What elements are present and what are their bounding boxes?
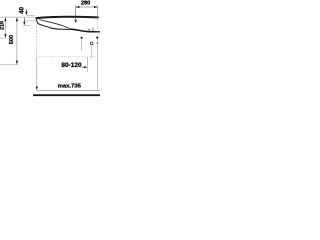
tick on wall pipe [96, 42, 98, 44]
svg-text:500: 500 [9, 35, 15, 44]
extension line / tap centre mark at x=75.7 [74, 5, 77, 23]
dimension 500 (rim to drain leader) [0, 17, 18, 65]
supply pipe line left [81, 39, 83, 51]
washbasin inner bowl line [39, 20, 69, 29]
wall extension line at x=97.6 (top) [97, 5, 99, 18]
wall line below basin [97, 19, 99, 37]
front edge lower dimension arrow [23, 18, 37, 26]
washbasin outer underside curve [37, 19, 100, 32]
floor reference thin line [37, 89, 100, 91]
svg-text:40: 40 [19, 6, 25, 13]
floor thick line [33, 94, 100, 96]
dashed projection line of basin front edge [36, 21, 38, 57]
dimension max.735 vertical line [36, 57, 82, 90]
svg-text:280: 280 [81, 1, 90, 7]
supply connection dot right (wall) [96, 37, 98, 39]
background [0, 0, 100, 100]
drain pipe line [91, 45, 93, 58]
dimension 40 (front rim thickness) [19, 6, 35, 15]
svg-text:max.735: max.735 [58, 84, 82, 90]
wall pipe line [96, 39, 98, 90]
extension line: basin rim level, to left margin [0, 16, 35, 18]
washbasin rim (side view top bar) [36, 17, 98, 18]
supply connection dot left [81, 37, 83, 39]
dimension 280 (top) [76, 1, 98, 8]
overflow tick on underside [92, 28, 94, 32]
drain outlet circle [90, 42, 93, 45]
dimension 80-120 leader [61, 57, 87, 72]
drain dot on underside [88, 29, 89, 30]
dotted water level line [38, 56, 97, 58]
dimension 210 (rim to supply connection) [0, 17, 7, 38]
svg-text:210: 210 [0, 21, 5, 30]
svg-text:80-120: 80-120 [61, 62, 82, 69]
